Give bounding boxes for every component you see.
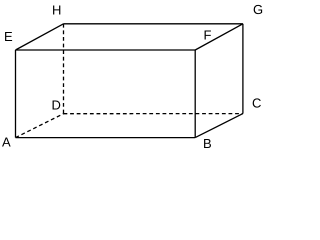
wire edge FG (top right depth diagonal): [195, 24, 243, 50]
wire edge DC hidden (dashed horizontal): [64, 113, 243, 115]
wire edge HG (back top): [64, 23, 243, 25]
wire edge AD hidden (dashed diagonal): [16, 114, 64, 138]
wire edge GC (back right vertical): [242, 24, 244, 114]
node E label: [5, 32, 12, 41]
node G label: [254, 5, 262, 14]
wire edge AB (front bottom): [16, 137, 196, 139]
node H label: [53, 6, 60, 15]
node F label: [205, 31, 211, 40]
wire edge BC (bottom right depth diagonal): [195, 114, 243, 138]
node B label: [204, 139, 211, 148]
node C label: [253, 98, 261, 107]
wire edge EF (front top): [16, 49, 196, 51]
wire edge EH (top left depth diagonal): [16, 24, 64, 50]
wire edge EA (front left vertical): [15, 50, 17, 138]
node A label: [2, 138, 11, 147]
wire edge HD hidden (dashed vertical): [63, 24, 65, 114]
node D label: [53, 101, 61, 110]
wire edge FB (front right vertical): [194, 50, 196, 138]
